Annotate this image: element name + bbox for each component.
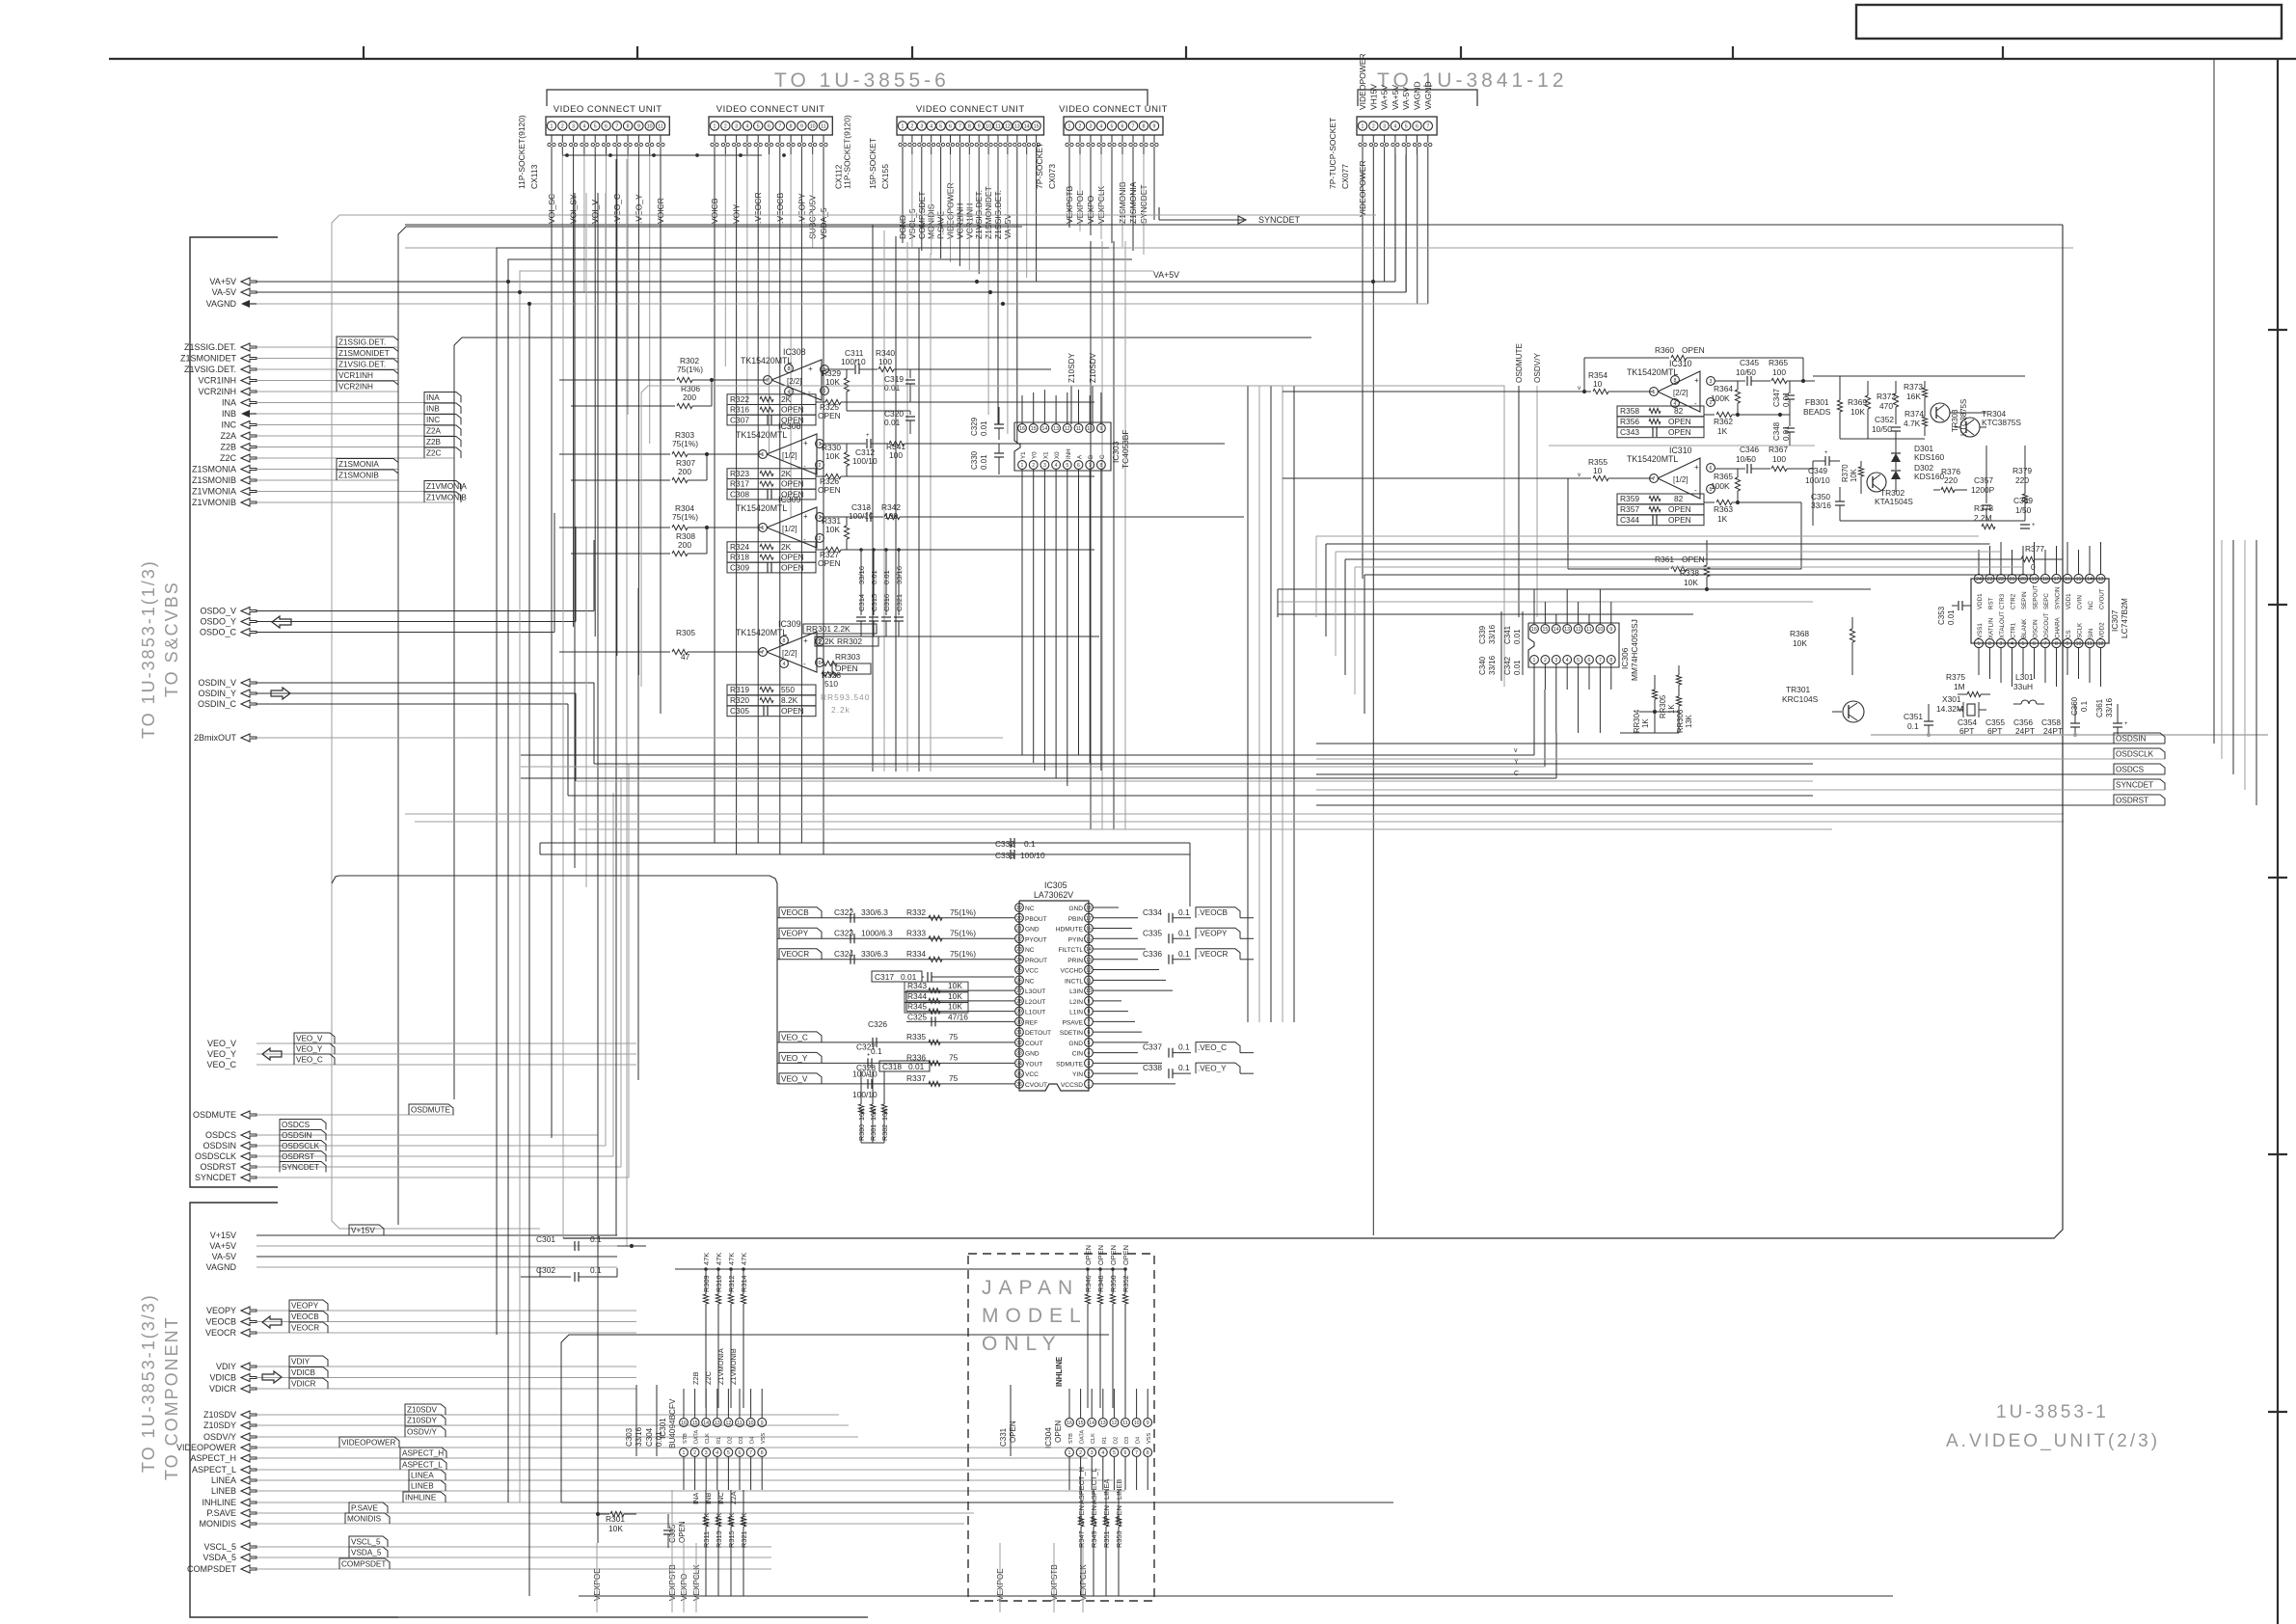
svg-text:13: 13 [2098,577,2104,582]
svg-text:6: 6 [1416,124,1418,130]
svg-text:OPEN: OPEN [1668,417,1691,426]
wire drops from CX155/CX073/CX077 [903,154,1428,1235]
svg-text:14: 14 [1024,124,1030,130]
svg-text:0.01: 0.01 [980,454,988,470]
svg-text:C359: C359 [2013,496,2033,505]
svg-text:33/16: 33/16 [1811,501,1831,510]
svg-text:11: 11 [658,124,662,130]
sheet title 1U-3853-1 / A.VIDEO_UNIT(2/3) [1946,1402,2160,1451]
svg-text:R352: R352 [1121,1275,1130,1292]
svg-text:VEO_C: VEO_C [781,1033,808,1042]
svg-text:R317: R317 [730,479,749,489]
left rows VEOPY/VEOCB/VEOCR [205,1300,636,1338]
JAPAN MODEL ONLY dashed box [968,1254,1154,1601]
svg-text:10K: 10K [857,1108,866,1121]
transistor TR303 KTC3875S [1931,399,1968,436]
svg-text:Z1SMONIDET: Z1SMONIDET [180,354,237,364]
svg-text:R324: R324 [730,542,749,552]
svg-text:3: 3 [1091,1450,1094,1456]
svg-text:33/16: 33/16 [635,1426,643,1447]
svg-text:TK15420MTL: TK15420MTL [736,628,787,637]
svg-text:8.2K: 8.2K [781,695,798,705]
svg-text:DETOUT: DETOUT [1025,1030,1051,1037]
svg-text:Z1VMONIA: Z1VMONIA [426,482,467,491]
svg-text:7P-TUCP-SOCKET: 7P-TUCP-SOCKET [1328,118,1337,189]
svg-text:Z2A: Z2A [220,431,236,441]
gray rail under IC307 [1871,733,2268,737]
svg-text:12: 12 [1112,1421,1118,1426]
svg-text:82: 82 [1674,406,1684,416]
svg-text:C316: C316 [882,594,891,611]
svg-text:Z1VMONIB: Z1VMONIB [426,493,467,501]
wire bus resistor top rail y=1316 [675,1267,1127,1271]
net label SYNCDET with arrow [1159,207,1301,225]
svg-text:INC: INC [426,416,440,424]
svg-text:MODEL: MODEL [982,1305,1088,1327]
left rows VEO_V/VEO_Y/VEO_C [206,1033,636,1069]
svg-text:75(1%): 75(1%) [950,949,976,959]
capacitor C320 0.01 [847,409,915,434]
svg-text:11: 11 [2087,641,2092,647]
svg-text:D3: D3 [739,1437,744,1444]
svg-text:R314: R314 [740,1275,748,1292]
capacitor C359 1/50 [2013,496,2036,528]
resistors RR304 1K / RR305 1K / RR306 13K [1620,665,1693,733]
IC306 MM74HC4053SJ [1527,589,1639,778]
svg-text:X1: X1 [1042,451,1049,459]
svg-text:SCLK: SCLK [2077,622,2084,638]
svg-text:OPEN: OPEN [1668,427,1691,437]
svg-text:13: 13 [1100,1421,1106,1426]
svg-text:4.7K: 4.7K [1904,419,1921,428]
svg-text:[1/2]: [1/2] [782,525,797,533]
svg-text:Z10SDV: Z10SDV [203,1410,236,1420]
svg-text:RST: RST [1988,597,1995,609]
svg-text:10K: 10K [825,451,840,461]
resistors R311/R313/R315/R321 47K [702,1490,748,1596]
svg-text:CVOUT: CVOUT [2099,588,2106,609]
svg-text:16K: 16K [1906,392,1921,401]
svg-text:C307: C307 [730,415,749,424]
svg-text:15: 15 [2076,577,2082,582]
svg-text:OSCIN: OSCIN [2033,619,2039,638]
svg-text:7: 7 [2044,641,2047,647]
svg-text:P.SAVE: P.SAVE [206,1508,236,1518]
svg-text:33/16: 33/16 [1488,624,1497,644]
svg-text:PRIN: PRIN [1067,958,1083,964]
svg-text:R348: R348 [1096,1275,1105,1292]
svg-text:BU4094BCFV: BU4094BCFV [668,1398,677,1448]
IC305 misc right wires [1094,907,1175,1084]
svg-text:VEO_V: VEO_V [296,1034,323,1042]
svg-text:TK15420MTL: TK15420MTL [1627,454,1678,464]
svg-text:VSCL_5: VSCL_5 [203,1542,236,1552]
svg-text:3: 3 [1088,1062,1091,1068]
svg-text:VSS: VSS [1147,1433,1152,1444]
op-amp IC310 [2/2] [1627,359,1715,412]
svg-text:8: 8 [968,124,971,130]
svg-text:+: + [850,928,853,934]
wire trunk verticals (connector drops long) [552,159,638,1543]
svg-text:100/10: 100/10 [841,357,866,366]
svg-text:TK15420MTL: TK15420MTL [736,430,787,440]
svg-text:1: 1 [714,124,716,130]
svg-text:-: - [1694,399,1697,408]
resistor R379 220 [2012,466,2032,521]
big routing box around center [563,550,2063,1238]
IC305 input row VEOPY (C323/R333) [777,928,1014,943]
svg-text:10K: 10K [1850,407,1865,417]
op-amp IC308 [1/2] [736,421,824,474]
svg-text:0.01: 0.01 [884,418,901,427]
svg-text:VA+5V: VA+5V [209,1241,236,1251]
svg-text:3: 3 [1090,124,1093,130]
resistor R369 10K [1848,381,1871,439]
resistor R362 1K [1704,412,1790,436]
capacitor C353 0.01 [1937,601,1971,625]
svg-text:R312: R312 [727,1275,736,1292]
drawing frame right rule [2268,59,2287,1624]
svg-text:ASPECT_H: ASPECT_H [190,1453,236,1463]
svg-text:R379: R379 [2012,466,2032,475]
resistor R355 10 [1283,457,1654,481]
svg-text:200: 200 [678,540,691,550]
svg-text:Z1SMONIDET: Z1SMONIDET [338,349,390,358]
svg-text:C308: C308 [730,489,749,499]
svg-text:TC4053BF: TC4053BF [1121,430,1130,470]
svg-text:VDIY: VDIY [216,1362,236,1371]
svg-text:OPEN: OPEN [781,553,804,562]
svg-text:18: 18 [2042,577,2048,582]
svg-text:5: 5 [1111,124,1114,130]
IC305 row COUT R335 75 / C326 0.1 [777,1019,1014,1056]
svg-text:OSDSCLK: OSDSCLK [195,1151,236,1161]
header TO 1U-3841-12 [1358,69,1568,106]
svg-text:NC: NC [1025,906,1035,912]
svg-text:CS: CS [2066,630,2072,638]
svg-text:BLANK: BLANK [2021,618,2028,638]
svg-text:5: 5 [1577,658,1580,663]
svg-text:10K: 10K [825,525,840,534]
svg-text:C345: C345 [1740,358,1759,367]
svg-text:1: 1 [1068,124,1071,130]
svg-text:9: 9 [1153,124,1156,130]
svg-text:47K: 47K [727,1513,736,1526]
svg-text:R358: R358 [1620,406,1639,416]
svg-text:33: 33 [1016,1051,1022,1057]
svg-text:5: 5 [2022,641,2025,647]
svg-text:9: 9 [800,124,803,130]
svg-text:OSDIN_Y: OSDIN_Y [198,689,236,698]
svg-text:16: 16 [681,1421,687,1426]
svg-text:VEO_V: VEO_V [781,1074,808,1083]
svg-text:10: 10 [1134,1421,1140,1426]
svg-text:-: - [803,462,806,471]
svg-text:0.1: 0.1 [1024,839,1036,849]
capacitor C345 10/50, resistor R366 100 [1715,358,1815,386]
svg-text:2: 2 [910,124,913,130]
op-amp IC310 [1/2] [1627,446,1715,499]
svg-text:OPEN: OPEN [818,558,841,568]
svg-text:R318: R318 [730,553,749,562]
resistor R305 47 [559,628,763,662]
svg-text:INA: INA [222,398,236,408]
svg-text:STB: STB [683,1433,689,1444]
svg-text:9: 9 [761,1421,764,1426]
svg-text:R319: R319 [730,685,749,694]
svg-text:8: 8 [1147,1450,1149,1456]
svg-text:v: v [1514,747,1518,754]
svg-text:3: 3 [1710,379,1713,385]
svg-text:VCC: VCC [1025,1071,1039,1078]
svg-text:R310: R310 [715,1275,723,1292]
svg-text:12: 12 [2098,641,2104,647]
svg-text:C361: C361 [2095,698,2104,717]
svg-text:C314: C314 [857,594,866,611]
svg-text:0.1: 0.1 [1178,907,1190,917]
svg-text:R362: R362 [1714,417,1733,426]
svg-text:Z2A: Z2A [426,426,442,435]
svg-text:1K: 1K [1717,426,1728,436]
svg-text:OPEN: OPEN [1115,1505,1123,1526]
svg-text:GND: GND [1068,1041,1083,1047]
svg-text:+: + [1824,450,1828,456]
svg-text:RR302: RR302 [837,636,862,646]
svg-text:Y0: Y0 [1032,451,1039,459]
svg-text:VAGND: VAGND [1413,81,1422,110]
svg-text:35: 35 [1016,1071,1022,1077]
wire drops from CX113/CX112 [552,153,824,854]
svg-text:OSDSIN: OSDSIN [2116,734,2146,743]
resistors R346/R348/R350/R352 OPEN [1084,1245,1130,1408]
svg-text:IC303: IC303 [1111,441,1121,463]
svg-text:CTR2: CTR2 [2011,593,2017,609]
svg-text:330/6.3: 330/6.3 [861,907,888,917]
svg-text:9: 9 [2066,641,2069,647]
IC305 LA73062V [1015,880,1094,1091]
connector CX155 15P-SOCKET [868,104,1044,239]
svg-text:+: + [850,949,853,955]
svg-text:C327: C327 [856,1042,876,1051]
IC305 input row VEOCB (C322/R332) [777,907,1014,923]
header TO 1U-3855-6 [547,69,1148,106]
svg-text:47K: 47K [702,1513,711,1526]
svg-text:11: 11 [995,124,1000,130]
capacitor C352 10/50 [1872,415,1901,453]
svg-text:6: 6 [2033,641,2036,647]
svg-text:26: 26 [1016,978,1022,984]
svg-text:15: 15 [1078,1421,1084,1426]
svg-text:1: 1 [762,452,765,458]
svg-text:12: 12 [1065,426,1070,432]
svg-text:+: + [866,506,870,512]
svg-text:VCR2INH: VCR2INH [338,382,373,391]
svg-text:5: 5 [757,124,760,130]
svg-text:V+15V: V+15V [351,1226,375,1234]
svg-text:C336: C336 [1143,949,1162,959]
resistor R372 470 [1877,381,1899,424]
svg-text:OSDRST: OSDRST [282,1152,314,1161]
left row OSDMUTE [193,1104,454,1120]
capacitor C311 100/10, resistor R340 100 [824,348,1051,374]
svg-text:15: 15 [1034,124,1040,130]
svg-text:CLK: CLK [705,1433,711,1444]
svg-text:Z2B: Z2B [220,443,236,452]
svg-text:+: + [1694,463,1699,472]
svg-text:0.1: 0.1 [1178,1042,1190,1052]
capacitor C347 0.01 [1772,381,1795,415]
svg-text:R353: R353 [1115,1530,1123,1548]
svg-text:1/50: 1/50 [2015,505,2032,515]
svg-text:R316: R316 [730,405,749,415]
svg-text:VSCL_5: VSCL_5 [351,1537,381,1546]
svg-text:OSDO_V: OSDO_V [200,607,236,616]
svg-text:R337: R337 [906,1073,926,1083]
svg-text:Z10SDY: Z10SDY [407,1416,437,1424]
svg-text:6: 6 [739,1450,742,1456]
op-amp IC309 [1/2] [736,495,824,548]
svg-text:200: 200 [683,392,696,402]
wire rails right mid [1278,446,1871,617]
capacitor C302 0.1 [521,1265,617,1282]
svg-text:7: 7 [959,124,961,130]
svg-text:7: 7 [762,650,765,656]
svg-text:LC747B2M: LC747B2M [2120,598,2129,638]
svg-text:TO 1U-3853-1(3/3): TO 1U-3853-1(3/3) [139,1293,158,1473]
svg-text:GND: GND [1025,1051,1040,1058]
resistor R373 16K [1904,381,1928,410]
svg-text:8: 8 [1609,658,1612,663]
svg-text:16: 16 [2065,577,2070,582]
svg-text:R332: R332 [906,907,926,917]
svg-text:C330: C330 [970,450,979,470]
svg-text:VDICB: VDICB [209,1373,236,1383]
svg-text:OSDO_C: OSDO_C [200,628,237,637]
svg-text:4: 4 [1101,1450,1104,1456]
svg-text:OSDSIN: OSDSIN [282,1131,311,1140]
svg-text:REF: REF [1025,1019,1038,1026]
svg-text:OPEN: OPEN [781,562,804,572]
net flags OSDSIN/OSDSCLK/OSDCS/SYNCDET/OSDRST [1316,733,2165,805]
svg-text:TO 1U-3855-6: TO 1U-3855-6 [774,69,950,92]
svg-text:VA+5V: VA+5V [1391,85,1400,110]
resistor R370 10K [1841,461,1864,494]
net labels ASPECT_H/ASPECT_L/LINEA/LINEB [1077,1467,1123,1504]
svg-text:C326: C326 [868,1019,887,1029]
svg-text:OSDMUTE: OSDMUTE [193,1110,236,1120]
svg-text:[2/2]: [2/2] [1673,389,1688,397]
svg-text:LINEB: LINEB [211,1486,236,1496]
svg-text:100/10: 100/10 [852,1090,878,1099]
svg-text:7: 7 [1132,124,1135,130]
svg-text:ONLY: ONLY [982,1333,1063,1355]
svg-text:R360: R360 [1655,345,1674,355]
capacitors C303 33/16 / C304 0.01 [625,1385,663,1456]
svg-text:2: 2 [1032,463,1035,469]
svg-text:9: 9 [1147,1421,1149,1426]
capacitor bank C314/C315/C316/C321 33/16 & 0.01 [854,548,1099,636]
svg-text:8: 8 [1674,378,1677,384]
resistor R365 100K [1711,469,1741,502]
svg-text:VCCHD: VCCHD [1061,968,1084,975]
left bracket TO 1U-3853-1(3/3) [139,1203,398,1617]
svg-text:VDICR: VDICR [291,1379,316,1388]
svg-text:ASPECT_L: ASPECT_L [402,1460,443,1469]
svg-text:C333: C333 [995,851,1014,860]
bottom long rail [398,1596,1893,1617]
net labels OSDMUTE/OSDV-Y (rotated) [1515,343,1542,617]
svg-text:1000/6.3: 1000/6.3 [861,928,893,937]
svg-text:36: 36 [1016,1082,1022,1088]
svg-text:OPEN: OPEN [1668,504,1691,514]
wire bus vertical trunks x=344/413/471 [332,215,1376,1229]
svg-text:R375: R375 [1946,672,1965,682]
svg-text:1: 1 [1653,390,1656,395]
resistor R327 OPEN [816,547,1094,568]
connector CX073 7P-SOCKET [1035,104,1168,224]
svg-text:VDD2: VDD2 [2099,622,2106,638]
svg-text:R351: R351 [1102,1530,1111,1548]
inductor L301 33uH [2013,672,2044,704]
svg-text:47K: 47K [740,1253,748,1265]
IC305 output row C334 .VEOCB [1094,907,1254,923]
resistor R338 10K [1680,540,1710,591]
svg-text:VCC: VCC [1025,968,1039,975]
svg-text:1K: 1K [1717,514,1728,524]
svg-text:VSS1: VSS1 [1977,623,1984,638]
svg-text:1: 1 [762,526,765,531]
svg-text:NC: NC [1025,978,1035,985]
svg-text:OSDCS: OSDCS [205,1130,236,1140]
svg-text:33/16: 33/16 [895,566,904,584]
svg-text:.VEO_C: .VEO_C [1198,1043,1227,1052]
svg-text:[1/2]: [1/2] [782,451,797,460]
net labels INA/INB/INC/Z2A [691,1491,738,1504]
svg-text:IC304: IC304 [1044,1427,1053,1448]
svg-text:100/10: 100/10 [1020,851,1045,860]
left rows Z10SDV..MONIDIS [176,1404,1138,1529]
svg-text:17: 17 [2054,577,2060,582]
svg-text:10: 10 [1593,466,1603,475]
resistor R329 10K [822,368,850,411]
svg-text:VIDEO CONNECT UNIT: VIDEO CONNECT UNIT [554,104,662,115]
svg-text:R320: R320 [730,695,749,705]
svg-text:47K: 47K [715,1253,723,1265]
svg-text:MM74HC4053SJ: MM74HC4053SJ [1630,619,1639,681]
svg-text:14: 14 [1086,947,1092,953]
svg-text:0.01: 0.01 [884,383,901,392]
svg-text:OSDSIN: OSDSIN [203,1141,236,1150]
svg-text:C304: C304 [645,1427,654,1447]
resistors R347/R349/R351/R353 OPEN [1077,1490,1123,1596]
svg-text:3: 3 [735,124,738,130]
svg-text:7: 7 [778,124,781,130]
svg-text:R338: R338 [1680,568,1699,578]
svg-text:OSDRST: OSDRST [200,1162,236,1172]
svg-text:C329: C329 [970,417,979,436]
svg-text:R311: R311 [702,1531,711,1548]
svg-text:PBIN: PBIN [1068,916,1084,923]
svg-text:13: 13 [1086,958,1092,963]
svg-text:VA+5V: VA+5V [1380,85,1390,110]
svg-text:Z1VMONIA: Z1VMONIA [716,1348,725,1385]
resistor R354 10 [1283,370,1654,394]
wire VA-5V row [257,154,1406,294]
resistor R377 0 [1986,544,2063,572]
routing box around op-amps [641,386,1504,687]
svg-text:C337: C337 [1143,1042,1162,1052]
svg-text:D2: D2 [1113,1437,1119,1444]
